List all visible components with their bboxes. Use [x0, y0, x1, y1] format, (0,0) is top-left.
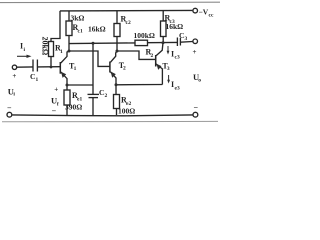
svg-text:3: 3	[185, 36, 188, 42]
svg-text:−: −	[7, 104, 12, 113]
svg-text:3kΩ: 3kΩ	[71, 14, 85, 23]
svg-text:c1: c1	[78, 29, 83, 35]
svg-text:o: o	[198, 77, 201, 83]
svg-text:e3: e3	[175, 86, 180, 92]
svg-text:100Ω: 100Ω	[118, 107, 135, 116]
svg-text:2: 2	[105, 93, 108, 99]
svg-text:20kΩ: 20kΩ	[41, 36, 50, 55]
svg-text:c3: c3	[175, 55, 180, 61]
svg-text:−: −	[194, 103, 199, 112]
svg-text:1: 1	[74, 66, 77, 72]
svg-text:+: +	[193, 48, 197, 56]
svg-text:100kΩ: 100kΩ	[134, 31, 155, 40]
svg-text:c2: c2	[126, 20, 131, 26]
svg-text:−V: −V	[199, 8, 209, 17]
svg-text:16kΩ: 16kΩ	[88, 25, 106, 34]
svg-text:+: +	[12, 72, 16, 80]
svg-text:2: 2	[123, 66, 126, 72]
svg-text:f: f	[57, 101, 59, 107]
svg-text:+: +	[54, 86, 58, 94]
svg-text:390Ω: 390Ω	[65, 103, 82, 112]
svg-text:16kΩ: 16kΩ	[166, 22, 184, 31]
svg-text:1: 1	[60, 49, 63, 55]
svg-text:−: −	[52, 106, 57, 115]
svg-text:1: 1	[36, 77, 39, 83]
svg-text:cc: cc	[209, 13, 214, 19]
svg-text:2: 2	[151, 53, 154, 59]
svg-text:3: 3	[167, 66, 170, 72]
